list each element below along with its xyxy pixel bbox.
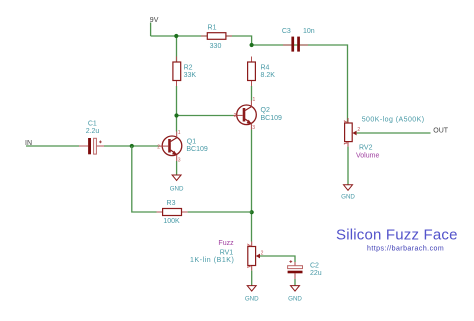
svg-text:GND: GND <box>245 295 259 302</box>
svg-text:2: 2 <box>157 145 160 151</box>
wire 9V stub <box>150 23 152 37</box>
svg-text:22u: 22u <box>310 270 322 277</box>
svg-text:Fuzz: Fuzz <box>218 240 234 247</box>
ground GND RV2 <box>341 185 355 201</box>
svg-text:RV2: RV2 <box>359 145 373 152</box>
svg-text:C2: C2 <box>310 263 319 270</box>
wire Q1 emitter to GND <box>176 161 178 175</box>
wire top rail <box>151 36 348 123</box>
svg-text:R3: R3 <box>167 200 176 207</box>
svg-text:C1: C1 <box>88 121 97 128</box>
svg-text:500K-log (A500K): 500K-log (A500K) <box>362 116 425 123</box>
svg-text:1K-lin (B1K): 1K-lin (B1K) <box>190 257 234 264</box>
svg-text:2.2u: 2.2u <box>86 128 100 135</box>
svg-text:GND: GND <box>341 193 355 200</box>
wire R2 bottom to Q1 collector <box>176 86 178 132</box>
wire RV1 bottom to GND <box>251 271 253 286</box>
svg-text:8.2K: 8.2K <box>261 72 276 79</box>
node junction C3 branch <box>250 43 254 47</box>
wire C2 to GND <box>294 279 296 286</box>
ground GND RV1 <box>245 286 259 303</box>
svg-text:BC109: BC109 <box>186 146 208 153</box>
svg-text:3: 3 <box>252 125 255 131</box>
svg-text:1: 1 <box>253 97 256 103</box>
svg-text:Q2: Q2 <box>261 107 270 114</box>
wire R4 bottom to Q2 collector <box>251 86 253 101</box>
svg-text:Volume: Volume <box>356 153 379 160</box>
svg-text:2: 2 <box>234 113 237 119</box>
svg-text:OUT: OUT <box>433 128 449 135</box>
node junction Q2 base <box>174 113 178 117</box>
capacitor C1 <box>79 121 104 155</box>
node junction R3 right <box>250 210 254 214</box>
wire OUT <box>357 132 431 134</box>
svg-text:3: 3 <box>178 158 181 164</box>
capacitor C3 <box>282 28 315 51</box>
ground GND Q1 <box>170 175 184 192</box>
resistor R3 <box>157 200 188 225</box>
svg-text:BC109: BC109 <box>261 115 283 122</box>
wire base rail Q2 <box>177 115 234 117</box>
svg-text:C3: C3 <box>282 28 291 35</box>
svg-text:Silicon Fuzz Face: Silicon Fuzz Face <box>336 227 458 244</box>
node junction C1 out <box>130 144 134 148</box>
wire RV2 bottom to GND <box>347 147 349 185</box>
svg-text:RV1: RV1 <box>220 250 234 257</box>
resistor R4 <box>248 57 276 87</box>
svg-text:100K: 100K <box>163 218 180 225</box>
svg-text:33K: 33K <box>184 72 197 79</box>
svg-text:10n: 10n <box>303 28 315 35</box>
svg-text:1: 1 <box>178 130 181 136</box>
potentiometer RV1 <box>190 240 264 271</box>
svg-text:R4: R4 <box>261 65 270 72</box>
wire Q2 emitter down to RV1 <box>251 130 253 242</box>
svg-text:R1: R1 <box>208 25 217 32</box>
svg-text:Q1: Q1 <box>187 138 196 145</box>
svg-text:GND: GND <box>288 295 302 302</box>
wire C1 to Q1 base <box>104 145 159 147</box>
node junction 9V rail <box>174 34 178 38</box>
svg-text:GND: GND <box>170 185 184 192</box>
wire IN <box>26 145 79 147</box>
resistor R1 <box>201 25 232 50</box>
potentiometer RV2 <box>344 116 425 159</box>
ground GND C2 <box>288 286 302 303</box>
svg-text:2: 2 <box>357 127 360 133</box>
svg-text:https://barbarach.com: https://barbarach.com <box>367 246 444 253</box>
transistor Q2 <box>234 97 283 131</box>
transistor Q1 <box>157 130 208 164</box>
wire R3 right to junction <box>188 211 252 213</box>
wire RV1 wiper to C2 <box>260 256 295 262</box>
svg-text:330: 330 <box>210 43 222 50</box>
capacitor C2 <box>288 260 322 279</box>
resistor R2 <box>173 57 196 87</box>
wire down to R3 <box>132 146 157 212</box>
wire R2 branch <box>176 36 178 62</box>
svg-text:R2: R2 <box>184 65 193 72</box>
